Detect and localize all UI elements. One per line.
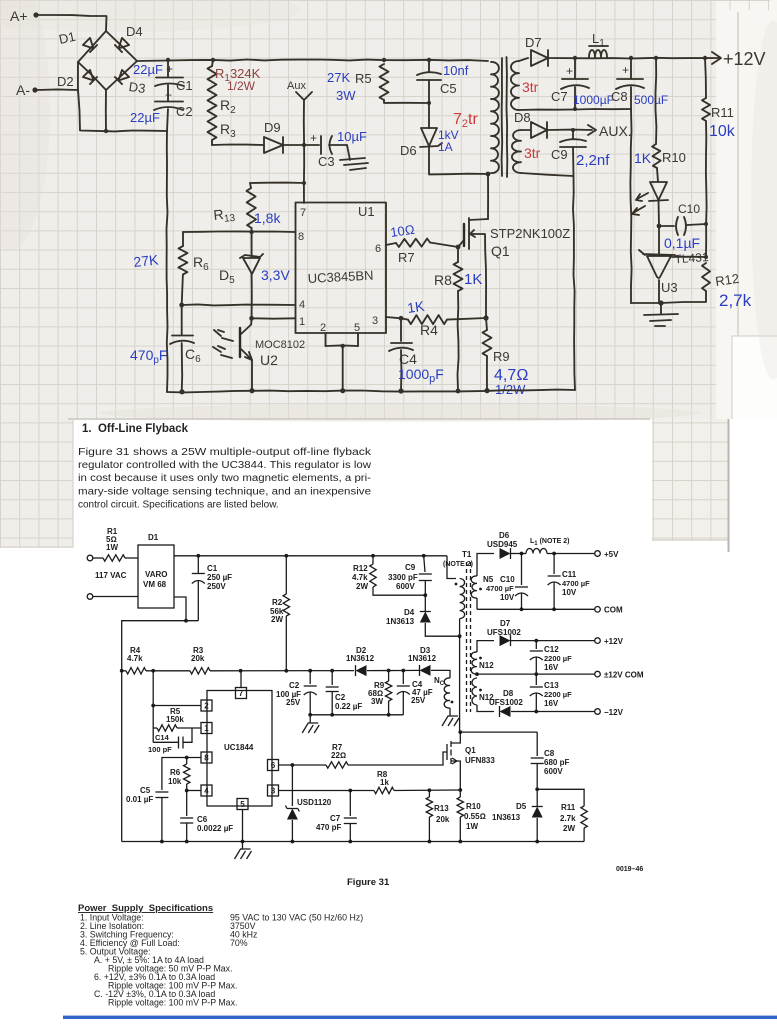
inductor L1 — [511, 553, 526, 555]
svg-text:1,8k: 1,8k — [254, 210, 281, 226]
svg-text:250V: 250V — [207, 582, 226, 591]
svg-text:C5: C5 — [440, 81, 457, 96]
svg-text:3tr: 3tr — [524, 145, 541, 161]
svg-text:R7: R7 — [398, 250, 415, 265]
svg-text:+: + — [622, 63, 629, 77]
pin2 wire — [153, 705, 201, 707]
svg-text:27K: 27K — [327, 70, 350, 85]
capacitor C5 0.01uF — [155, 791, 168, 793]
svg-text:6: 6 — [375, 243, 381, 255]
bridge rectifier D1-D4 diamond — [78, 31, 106, 62]
capacitor C2 100uF — [309, 671, 311, 684]
wire AUX node down to U1 pin7 — [303, 100, 305, 203]
resistor R3 — [190, 668, 210, 674]
U1 pins 2,5 join — [325, 333, 327, 346]
svg-text:D6: D6 — [499, 531, 510, 540]
+12V arrow and label — [712, 52, 721, 64]
svg-text:8: 8 — [298, 231, 304, 243]
capacitor C2 0.22uF — [331, 671, 333, 685]
capacitor C8 — [630, 58, 632, 78]
svg-text:C6: C6 — [197, 815, 208, 824]
svg-text:R11: R11 — [711, 105, 734, 120]
diode D4 — [115, 38, 129, 52]
svg-text:70%: 70% — [230, 938, 248, 948]
svg-text:C2: C2 — [335, 693, 346, 702]
wire R3 to D9 — [212, 144, 264, 147]
zener D6 — [428, 103, 430, 128]
bridge module D1 VARO VM 68 — [138, 545, 174, 608]
svg-text:10V: 10V — [562, 588, 577, 597]
svg-text:C12: C12 — [544, 645, 559, 654]
graph paper photo background — [0, 0, 777, 419]
svg-text:0,1µF: 0,1µF — [664, 235, 700, 251]
svg-text:10k: 10k — [168, 777, 182, 786]
pin8 wire to C5 — [162, 758, 201, 791]
diode D9 — [264, 137, 283, 153]
diode D8 — [521, 129, 530, 131]
winding N12 lower — [472, 678, 477, 705]
svg-text:1N3612: 1N3612 — [408, 654, 437, 663]
pin3 wire — [279, 790, 375, 792]
svg-text:1: 1 — [204, 724, 209, 733]
svg-text:Figure 31 shows a 25W multiple: Figure 31 shows a 25W multiple-output of… — [78, 447, 372, 458]
svg-text:R12: R12 — [353, 564, 368, 573]
resistor R13 — [250, 182, 304, 184]
svg-text:16V: 16V — [544, 663, 559, 672]
resistor R10 0.55ohm — [459, 790, 461, 797]
figure ground rail — [122, 841, 584, 843]
resistor R6 10k — [185, 756, 189, 760]
svg-text:1N3613: 1N3613 — [492, 813, 521, 822]
resistor chain R1 R2 R3 — [212, 60, 213, 66]
svg-text:A+: A+ — [10, 8, 28, 24]
svg-text:3: 3 — [271, 787, 276, 796]
svg-text:R10: R10 — [662, 150, 686, 165]
resistor R5 150k — [153, 727, 157, 729]
transformer T1 primary — [460, 579, 465, 619]
resistor R12 — [371, 554, 375, 558]
svg-text:C9: C9 — [551, 147, 568, 162]
diode D8 UFS1002 — [477, 705, 494, 712]
resistor R8 1k — [374, 787, 394, 793]
svg-text:D7: D7 — [500, 619, 511, 628]
resistor R12 — [702, 263, 710, 291]
svg-text:117 VAC: 117 VAC — [95, 571, 127, 580]
diode D3 1N3612 — [403, 669, 419, 671]
svg-text:USD1120: USD1120 — [297, 798, 332, 807]
svg-text:1W: 1W — [106, 543, 118, 552]
optocoupler U2 phototransistor — [241, 318, 252, 334]
capacitor C7 470pF — [349, 791, 351, 817]
svg-text:2W: 2W — [563, 824, 575, 833]
svg-text:20k: 20k — [436, 815, 450, 824]
svg-text:C5: C5 — [140, 786, 151, 795]
svg-text:D1: D1 — [148, 533, 159, 542]
svg-text:10V: 10V — [500, 593, 515, 602]
svg-text:C9: C9 — [405, 563, 416, 572]
svg-text:25V: 25V — [286, 698, 301, 707]
+12V terminal — [595, 638, 601, 644]
svg-text:C7: C7 — [551, 89, 568, 104]
transformer primary winding 72tr — [491, 62, 499, 173]
svg-text:5: 5 — [354, 322, 360, 334]
svg-text:0.01 µF: 0.01 µF — [126, 795, 153, 804]
svg-text:U1: U1 — [358, 204, 375, 219]
wire D9 to node — [283, 144, 304, 146]
diode D4 1N3613 — [424, 595, 426, 611]
svg-text:3,3V: 3,3V — [261, 267, 290, 283]
wire LED to C10 node — [658, 200, 661, 226]
transformer core — [466, 562, 468, 712]
svg-text:2: 2 — [204, 702, 209, 711]
svg-text:4: 4 — [204, 787, 209, 796]
svg-text:1W: 1W — [466, 822, 478, 831]
svg-text:USD945: USD945 — [487, 540, 518, 549]
secondary top to D7 — [519, 58, 528, 61]
wire bridge left down to bottom corner — [78, 90, 167, 131]
resistor R1 — [93, 557, 103, 559]
diode D1 — [83, 38, 97, 52]
bottom blue rule — [63, 1016, 777, 1019]
ground under C2 — [309, 715, 311, 723]
pin 8 — [201, 752, 212, 763]
svg-text:D5: D5 — [516, 802, 527, 811]
capacitor C9 — [572, 130, 574, 139]
svg-text:2,7k: 2,7k — [719, 291, 752, 310]
left vertical rail — [167, 131, 168, 392]
wire primary bottom to Q1 drain — [486, 172, 491, 177]
svg-text:2200 µF: 2200 µF — [544, 654, 572, 663]
svg-text:5: 5 — [240, 800, 245, 809]
svg-text:22µF: 22µF — [133, 62, 163, 77]
capacitor C7 — [574, 58, 576, 78]
svg-text:NC: NC — [434, 676, 445, 687]
svg-text:D9: D9 — [264, 120, 281, 135]
capacitor C6 0.0022uF — [186, 791, 188, 817]
svg-text:R2: R2 — [272, 598, 283, 607]
svg-text:10nf: 10nf — [443, 63, 469, 78]
svg-text:in cost because it uses only t: in cost because it uses only two magneti… — [78, 473, 371, 484]
inductor L1 — [589, 50, 607, 57]
svg-text:−12V: −12V — [604, 708, 624, 717]
capacitor C10 — [659, 225, 674, 227]
input terminal bottom — [87, 594, 93, 600]
capacitor C12 2200uF — [535, 641, 537, 649]
svg-text:4.7k: 4.7k — [352, 573, 368, 582]
svg-text:regulator controlled with the: regulator controlled with the UC3844. Th… — [78, 460, 372, 471]
svg-text:+: + — [165, 88, 172, 102]
svg-text:C11: C11 — [562, 570, 577, 579]
wire A- to bridge left — [37, 62, 78, 90]
svg-text:N12: N12 — [479, 661, 494, 670]
svg-text:+: + — [566, 64, 573, 78]
+5V terminal — [595, 551, 601, 557]
svg-text:D7: D7 — [525, 35, 542, 50]
pin 6 — [268, 760, 279, 771]
svg-text:20k: 20k — [191, 654, 205, 663]
capacitor C11 4700uF — [553, 554, 555, 575]
svg-text:R10: R10 — [466, 802, 481, 811]
pin 3 — [268, 785, 279, 796]
svg-text:T1: T1 — [462, 550, 472, 559]
svg-text:L1 (NOTE 2): L1 (NOTE 2) — [530, 538, 570, 547]
svg-text:4700 µF: 4700 µF — [562, 579, 590, 588]
+-12V COM rail — [477, 673, 595, 675]
resistor R13 20k — [428, 788, 432, 792]
svg-text:1. Off-Line Flyback: 1. Off-Line Flyback — [82, 423, 189, 435]
bottom wire of C2/R9/C4 group — [310, 714, 403, 716]
svg-text:1/2W: 1/2W — [227, 79, 256, 93]
svg-text:1N3612: 1N3612 — [346, 654, 375, 663]
svg-text:Q1: Q1 — [465, 746, 476, 755]
svg-text:1k: 1k — [380, 778, 389, 787]
wire D7 to +12V rail — [548, 57, 720, 60]
svg-text:100 pF: 100 pF — [148, 745, 172, 754]
svg-text:D8: D8 — [514, 110, 531, 125]
MOSFET Q1 UFN833 — [447, 741, 451, 764]
diode D2 — [83, 70, 97, 84]
svg-text:0.22 µF: 0.22 µF — [335, 702, 362, 711]
svg-text:0.0022 µF: 0.0022 µF — [197, 824, 233, 833]
svg-text:C1: C1 — [207, 564, 218, 573]
opto LED — [657, 168, 658, 182]
svg-text:N5: N5 — [483, 575, 494, 584]
svg-text:3tr: 3tr — [522, 79, 539, 95]
secondary top winding 3tr — [511, 61, 519, 110]
secondary return wire — [519, 109, 631, 110]
svg-text:600V: 600V — [396, 582, 415, 591]
wire terminal to D1 — [93, 596, 138, 598]
zener D5 — [251, 228, 253, 257]
svg-text:1: 1 — [299, 316, 305, 328]
capacitor C6 — [181, 305, 183, 335]
U1 pin8 wire — [183, 230, 295, 233]
svg-text:control circuit. Specification: control circuit. Specifications are list… — [78, 499, 279, 510]
U1 pin1 wire — [252, 317, 295, 319]
capacitor C4 47uF — [401, 669, 405, 673]
primary ground rail — [167, 390, 575, 393]
svg-text:1K: 1K — [634, 150, 652, 166]
svg-text:A-: A- — [16, 82, 30, 98]
winding N12 upper — [471, 652, 477, 674]
svg-text:C3: C3 — [318, 154, 335, 169]
diode USD1120 — [291, 765, 293, 806]
svg-text:0019–46: 0019–46 — [616, 866, 643, 873]
svg-text:C8: C8 — [544, 749, 555, 758]
svg-text:25V: 25V — [411, 696, 426, 705]
svg-text:C2: C2 — [289, 681, 300, 690]
secondary bottom end wire — [521, 173, 573, 176]
svg-text:VM 68: VM 68 — [143, 580, 167, 589]
wire R5 bottom to C5 bottom node — [384, 100, 429, 103]
svg-text:D4: D4 — [404, 608, 415, 617]
capacitor C9 3300pF — [422, 554, 426, 558]
svg-text:2200 µF: 2200 µF — [544, 690, 572, 699]
svg-text:1000µF: 1000µF — [573, 93, 614, 107]
svg-text:2.7k: 2.7k — [560, 814, 576, 823]
svg-text:Aux: Aux — [287, 80, 306, 92]
svg-text:AUX.: AUX. — [599, 123, 632, 139]
svg-text:4.7k: 4.7k — [127, 654, 143, 663]
diode D5 1N3613 — [535, 787, 539, 791]
svg-text:600V: 600V — [544, 767, 563, 776]
svg-text:1N3613: 1N3613 — [386, 617, 415, 626]
ground symbol TL431 — [660, 303, 662, 314]
secondary bottom winding 3tr — [512, 130, 521, 173]
svg-text:2W: 2W — [271, 615, 283, 624]
aux/feedback drop wire — [630, 109, 631, 303]
svg-text:680 pF: 680 pF — [544, 758, 569, 767]
svg-text:4700 µF: 4700 µF — [486, 584, 514, 593]
svg-text:7: 7 — [300, 207, 306, 219]
UC1844 IC body — [207, 691, 272, 807]
svg-text:+5V: +5V — [604, 550, 619, 559]
svg-text:C10: C10 — [678, 202, 700, 216]
svg-text:+12V: +12V — [604, 637, 624, 646]
svg-text:R8: R8 — [434, 272, 452, 288]
COM rail — [477, 608, 595, 610]
svg-text:R5: R5 — [355, 71, 372, 86]
pin6 wire — [279, 764, 327, 766]
svg-text:150k: 150k — [166, 715, 184, 724]
diode D2 1N3612 — [356, 665, 367, 676]
svg-text:22µF: 22µF — [130, 110, 160, 125]
ground under pin5 — [235, 849, 252, 859]
svg-text:C1: C1 — [176, 78, 193, 93]
svg-text:2W: 2W — [356, 582, 368, 591]
resistor R9 — [486, 318, 487, 330]
svg-text:6: 6 — [271, 761, 276, 770]
winding NC — [431, 670, 450, 678]
capacitor C1 — [197, 556, 199, 573]
svg-text:±12V COM: ±12V COM — [604, 671, 644, 680]
MOSFET Q1 — [456, 245, 461, 250]
svg-text:C13: C13 — [544, 681, 559, 690]
svg-text:27K: 27K — [133, 251, 160, 270]
ground under NC — [449, 708, 451, 716]
resistor R11 2.7k — [537, 789, 584, 806]
svg-text:3W: 3W — [371, 697, 383, 706]
svg-text:470 pF: 470 pF — [316, 823, 341, 832]
diode D6 USD945 — [500, 548, 511, 559]
svg-text:2,2nf: 2,2nf — [576, 152, 610, 169]
input terminal top — [87, 555, 93, 561]
svg-text:mary-side voltage sensing tech: mary-side voltage sensing technique, and… — [78, 486, 371, 497]
svg-text:D3: D3 — [128, 79, 147, 96]
svg-text:R4: R4 — [420, 322, 438, 338]
svg-text:D6: D6 — [400, 143, 417, 158]
capacitor C1 — [167, 60, 169, 77]
svg-text:4: 4 — [299, 299, 305, 311]
-12V terminal — [595, 709, 601, 715]
svg-text:C7: C7 — [330, 814, 341, 823]
svg-text:7: 7 — [239, 689, 244, 698]
resistor R4 — [126, 668, 146, 674]
svg-text:+: + — [166, 62, 173, 76]
svg-text:+12V: +12V — [723, 49, 766, 69]
svg-text:10k: 10k — [709, 123, 736, 140]
svg-text:16V: 16V — [544, 699, 559, 708]
resistor R8 — [457, 247, 459, 262]
svg-text:C10: C10 — [500, 575, 515, 584]
winding N5 — [477, 554, 494, 577]
svg-text:R9: R9 — [493, 349, 510, 364]
svg-text:250 µF: 250 µF — [207, 573, 232, 582]
ground at C3 — [347, 145, 350, 160]
svg-text:U3: U3 — [661, 280, 678, 295]
diode D7 — [531, 50, 548, 66]
ground rail TL431 — [631, 302, 661, 304]
capacitor C8 680pF — [536, 732, 538, 756]
svg-text:0.55Ω: 0.55Ω — [464, 812, 486, 821]
svg-text:C4: C4 — [399, 351, 417, 367]
svg-text:D4: D4 — [126, 24, 143, 39]
resistor R9 68ohm — [367, 670, 403, 672]
svg-text:R13: R13 — [434, 804, 449, 813]
svg-text:MOC8102: MOC8102 — [255, 339, 305, 351]
svg-text:STP2NK100Z: STP2NK100Z — [490, 226, 570, 241]
svg-text:U2: U2 — [260, 352, 278, 368]
capacitor C10 4700uF — [521, 554, 523, 586]
opto input arrows — [213, 330, 233, 358]
svg-text:500µF: 500µF — [634, 93, 668, 107]
svg-text:8: 8 — [204, 754, 209, 763]
wire A+ to bridge — [38, 15, 107, 31]
pin 4 — [201, 785, 212, 796]
drain node wire to C8 — [458, 730, 462, 734]
U1 pin4 wire — [182, 304, 295, 305]
svg-text:(NOTE 2): (NOTE 2) — [443, 561, 473, 568]
resistor R5 27K 3W — [380, 64, 389, 100]
pin 5 — [237, 799, 248, 810]
svg-text:1A: 1A — [438, 140, 453, 154]
wire D8 to AUX arrow — [547, 129, 592, 131]
wire C1 bottom to left rail — [122, 621, 199, 842]
svg-text:C2: C2 — [176, 104, 193, 119]
top rail of figure 31 — [174, 555, 447, 557]
TL431 ref wire — [672, 256, 706, 258]
U1 pin6 wire and resistor R7 — [386, 243, 396, 245]
svg-text:1K: 1K — [464, 271, 482, 288]
diode D7 UFS1002 — [477, 641, 494, 652]
svg-text:D2: D2 — [57, 74, 74, 89]
pin5 wire to ground rail — [242, 810, 244, 842]
photo bottom edge — [68, 418, 650, 420]
svg-text:22Ω: 22Ω — [331, 751, 346, 760]
resistor R2 — [285, 556, 287, 594]
wire bridge bottom node — [105, 90, 107, 131]
resistor R6 — [182, 232, 184, 246]
svg-text:Figure 31: Figure 31 — [347, 877, 390, 888]
D1 lower output wire — [174, 597, 186, 621]
capacitor C2 — [155, 101, 183, 103]
pin 2 — [201, 700, 212, 711]
svg-text:R6: R6 — [170, 768, 181, 777]
svg-text:UFS1002: UFS1002 — [489, 698, 523, 707]
capacitor C13 2200uF — [535, 674, 537, 685]
opto LED arrows — [632, 193, 648, 215]
pin 1 — [201, 723, 212, 734]
svg-text:R11: R11 — [561, 803, 576, 812]
wire D6 to primary bottom — [429, 146, 488, 174]
svg-text:COM: COM — [604, 606, 623, 615]
svg-text:10µF: 10µF — [337, 129, 367, 144]
svg-text:Q1: Q1 — [491, 243, 510, 259]
pin7 wire — [240, 671, 242, 688]
U1 pin3 wire — [386, 317, 401, 318]
U1 IC box UC3845BN — [296, 203, 387, 334]
svg-text:UFN833: UFN833 — [465, 756, 495, 765]
